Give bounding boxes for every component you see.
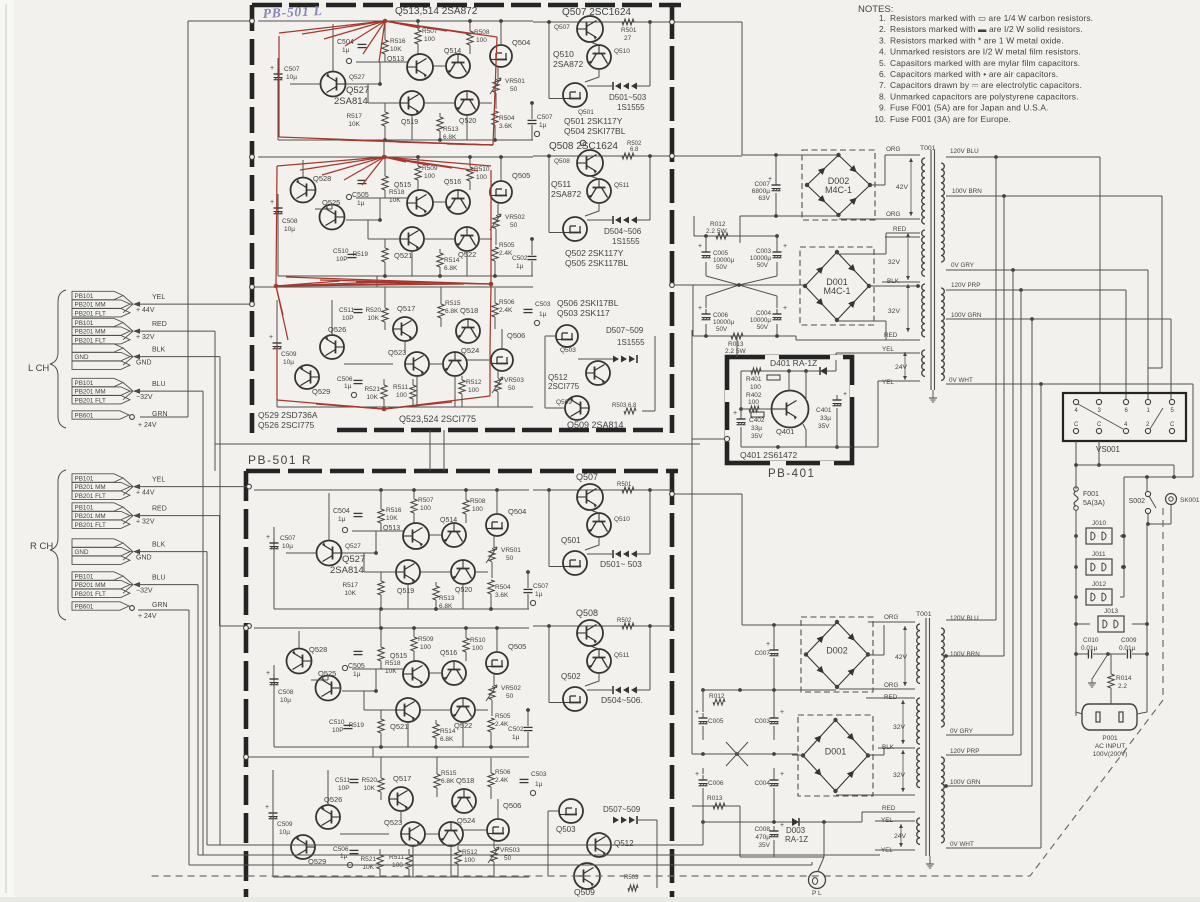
svg-text:C507: C507 bbox=[537, 114, 553, 121]
svg-text:R514: R514 bbox=[440, 728, 456, 735]
svg-text:100: 100 bbox=[748, 399, 759, 406]
svg-text:YEL: YEL bbox=[881, 817, 893, 824]
svg-text:ORG: ORG bbox=[886, 146, 900, 153]
svg-text:120V BLU: 120V BLU bbox=[950, 615, 979, 622]
svg-text:C010: C010 bbox=[1083, 637, 1099, 644]
svg-text:Fuse F001 (5A) are for Japan a: Fuse F001 (5A) are for Japan and U.S.A. bbox=[890, 103, 1049, 113]
svg-text:1µ: 1µ bbox=[535, 781, 543, 788]
svg-text:10000µ: 10000µ bbox=[713, 319, 735, 326]
svg-text:AC INPUT: AC INPUT bbox=[1095, 743, 1125, 750]
svg-text:+ 32V: + 32V bbox=[136, 334, 155, 341]
svg-text:R508: R508 bbox=[470, 498, 486, 505]
svg-text:R511: R511 bbox=[393, 384, 408, 391]
svg-text:6.8: 6.8 bbox=[630, 147, 639, 153]
svg-text:C401: C401 bbox=[816, 407, 832, 414]
svg-text:C006: C006 bbox=[713, 312, 729, 319]
svg-text:2SA872: 2SA872 bbox=[551, 189, 582, 199]
svg-text:M4C-1: M4C-1 bbox=[825, 185, 852, 195]
svg-text:D504~506: D504~506 bbox=[604, 227, 642, 236]
svg-text:10K: 10K bbox=[390, 46, 402, 53]
svg-text:C502: C502 bbox=[508, 726, 524, 733]
svg-text:1µ: 1µ bbox=[535, 591, 543, 598]
svg-text:Q525: Q525 bbox=[322, 198, 340, 207]
svg-text:Q527: Q527 bbox=[342, 554, 365, 565]
svg-text:VR503: VR503 bbox=[504, 377, 524, 384]
svg-text:10K: 10K bbox=[385, 668, 397, 675]
svg-text:C507: C507 bbox=[533, 583, 549, 590]
svg-text:Q514: Q514 bbox=[440, 517, 457, 524]
svg-text:RED: RED bbox=[884, 694, 898, 701]
svg-text:R513: R513 bbox=[443, 126, 459, 133]
svg-text:24V: 24V bbox=[895, 364, 908, 371]
svg-text:1S1555: 1S1555 bbox=[617, 103, 645, 112]
svg-text:Q515: Q515 bbox=[394, 182, 411, 189]
svg-text:Q511: Q511 bbox=[551, 179, 571, 189]
svg-text:7.: 7. bbox=[879, 80, 886, 90]
svg-text:GND: GND bbox=[75, 549, 89, 556]
svg-text:Q514: Q514 bbox=[444, 48, 461, 55]
svg-text:R402: R402 bbox=[746, 392, 762, 399]
svg-text:2.2 5W: 2.2 5W bbox=[725, 348, 746, 355]
svg-text:100: 100 bbox=[476, 37, 487, 44]
svg-text:100: 100 bbox=[420, 505, 431, 512]
svg-text:Q513: Q513 bbox=[387, 56, 404, 63]
svg-text:D507~509: D507~509 bbox=[603, 805, 641, 814]
svg-text:R012: R012 bbox=[710, 221, 726, 228]
svg-text:100: 100 bbox=[396, 392, 407, 399]
svg-text:10K: 10K bbox=[348, 121, 360, 128]
svg-text:50V: 50V bbox=[757, 262, 769, 269]
svg-text:1µ: 1µ bbox=[340, 853, 348, 860]
svg-text:Fuse F001 (3A) are for Europe.: Fuse F001 (3A) are for Europe. bbox=[890, 114, 1011, 124]
svg-text:6.8K: 6.8K bbox=[441, 778, 455, 785]
svg-text:VR502: VR502 bbox=[505, 214, 525, 221]
svg-text:PB201 MM: PB201 MM bbox=[75, 484, 106, 491]
svg-text:2.2: 2.2 bbox=[1118, 683, 1127, 690]
svg-text:+: + bbox=[783, 243, 787, 250]
svg-text:3.6K: 3.6K bbox=[499, 123, 513, 130]
svg-text:1S1555: 1S1555 bbox=[612, 237, 640, 246]
svg-text:Capacitors drawn by ⎓ are elec: Capacitors drawn by ⎓ are electrolytic c… bbox=[890, 80, 1082, 90]
svg-text:C503: C503 bbox=[535, 301, 551, 308]
svg-text:RED: RED bbox=[884, 332, 898, 339]
svg-text:50: 50 bbox=[510, 86, 518, 93]
svg-text:63V: 63V bbox=[758, 195, 770, 202]
svg-text:+: + bbox=[269, 334, 273, 341]
svg-text:+: + bbox=[695, 771, 699, 778]
svg-text:R504: R504 bbox=[499, 115, 515, 122]
svg-text:VR502: VR502 bbox=[501, 685, 521, 692]
svg-text:10P: 10P bbox=[336, 256, 348, 263]
svg-text:YEL: YEL bbox=[882, 346, 894, 353]
svg-text:Q528: Q528 bbox=[309, 645, 327, 654]
svg-text:R517: R517 bbox=[346, 113, 362, 120]
svg-text:6800µ: 6800µ bbox=[752, 188, 770, 195]
svg-text:10P: 10P bbox=[342, 315, 354, 322]
svg-text:D507~509: D507~509 bbox=[606, 326, 644, 335]
svg-text:50V: 50V bbox=[757, 324, 769, 331]
svg-text:8.: 8. bbox=[879, 91, 886, 101]
svg-text:C005: C005 bbox=[708, 718, 724, 725]
svg-text:Capacitors marked with • are a: Capacitors marked with • are air capacit… bbox=[890, 69, 1058, 79]
svg-text:10µ: 10µ bbox=[283, 359, 294, 366]
svg-text:Q506: Q506 bbox=[503, 801, 521, 810]
svg-text:10K: 10K bbox=[386, 515, 398, 522]
svg-text:Q507: Q507 bbox=[576, 472, 598, 482]
svg-text:PB201 FLT: PB201 FLT bbox=[75, 310, 107, 317]
svg-text:5.: 5. bbox=[879, 58, 886, 68]
svg-text:Q501 2SK117Y: Q501 2SK117Y bbox=[564, 116, 623, 126]
svg-text:D501~ 503: D501~ 503 bbox=[600, 559, 642, 569]
svg-text:NOTES:: NOTES: bbox=[858, 4, 893, 15]
svg-text:0V WHT: 0V WHT bbox=[949, 377, 973, 384]
svg-text:35V: 35V bbox=[818, 423, 830, 430]
svg-text:C009: C009 bbox=[1121, 637, 1137, 644]
svg-text:+: + bbox=[766, 641, 770, 648]
svg-text:100: 100 bbox=[476, 174, 487, 181]
svg-text:10.: 10. bbox=[874, 114, 886, 124]
svg-text:D401 RA-1Z: D401 RA-1Z bbox=[770, 358, 817, 368]
svg-text:PB201 FLT: PB201 FLT bbox=[75, 591, 107, 598]
svg-text:C503: C503 bbox=[531, 771, 547, 778]
svg-text:R013: R013 bbox=[707, 795, 723, 802]
svg-text:470µ: 470µ bbox=[755, 834, 770, 841]
svg-text:32V: 32V bbox=[893, 724, 906, 731]
svg-text:PB101: PB101 bbox=[75, 293, 94, 300]
svg-text:120V BLU: 120V BLU bbox=[950, 148, 979, 155]
svg-text:50: 50 bbox=[508, 385, 516, 392]
svg-text:Q526 2SCI775: Q526 2SCI775 bbox=[258, 420, 315, 430]
svg-text:100V BRN: 100V BRN bbox=[950, 651, 980, 658]
svg-text:C: C bbox=[1097, 422, 1102, 428]
svg-text:0V GRY: 0V GRY bbox=[951, 262, 975, 269]
svg-text:Q523,524 2SCI775: Q523,524 2SCI775 bbox=[399, 414, 476, 424]
svg-text:R505: R505 bbox=[495, 713, 511, 720]
svg-text:J012: J012 bbox=[1092, 581, 1106, 588]
svg-text:+: + bbox=[843, 391, 847, 398]
svg-text:R518: R518 bbox=[385, 660, 401, 667]
svg-text:RA-1Z: RA-1Z bbox=[785, 835, 808, 844]
svg-text:9.: 9. bbox=[879, 103, 886, 113]
svg-text:RED: RED bbox=[893, 226, 907, 233]
svg-text:Q512: Q512 bbox=[548, 373, 568, 382]
svg-text:Q522: Q522 bbox=[454, 721, 472, 730]
svg-text:Q504: Q504 bbox=[508, 507, 526, 516]
svg-text:C510: C510 bbox=[329, 719, 345, 726]
svg-text:Q503 2SK117: Q503 2SK117 bbox=[557, 308, 610, 318]
svg-text:R513: R513 bbox=[439, 595, 455, 602]
svg-text:PB101: PB101 bbox=[75, 380, 94, 387]
svg-text:100: 100 bbox=[420, 644, 431, 651]
svg-text:R520: R520 bbox=[365, 307, 381, 314]
svg-text:R521: R521 bbox=[360, 856, 376, 863]
svg-text:1.: 1. bbox=[879, 13, 886, 23]
svg-text:100: 100 bbox=[472, 506, 483, 513]
svg-text:Q527: Q527 bbox=[345, 543, 361, 550]
svg-text:2.4K: 2.4K bbox=[499, 307, 513, 314]
svg-text:+: + bbox=[265, 804, 269, 811]
svg-text:1µ: 1µ bbox=[342, 47, 350, 54]
svg-text:42V: 42V bbox=[895, 654, 908, 661]
svg-text:R506: R506 bbox=[495, 769, 511, 776]
svg-text:10µ: 10µ bbox=[280, 697, 291, 704]
svg-text:P L: P L bbox=[812, 890, 822, 897]
svg-text:Q529 2SD736A: Q529 2SD736A bbox=[258, 410, 318, 420]
svg-text:Unmarked capacitors are polyst: Unmarked capacitors are polystyrene capa… bbox=[890, 91, 1079, 101]
svg-text:R510: R510 bbox=[470, 637, 486, 644]
svg-text:27: 27 bbox=[624, 35, 632, 42]
svg-text:Q515: Q515 bbox=[390, 653, 407, 660]
svg-text:120V PRP: 120V PRP bbox=[951, 282, 980, 289]
svg-text:Q527: Q527 bbox=[346, 85, 369, 96]
svg-text:C507: C507 bbox=[280, 535, 296, 542]
svg-text:Q524: Q524 bbox=[461, 346, 479, 355]
svg-text:Q502: Q502 bbox=[561, 672, 581, 681]
svg-text:T001: T001 bbox=[916, 611, 932, 618]
svg-text:Q507 2SC1624: Q507 2SC1624 bbox=[562, 7, 631, 18]
svg-text:Q519: Q519 bbox=[397, 588, 414, 595]
svg-text:R014: R014 bbox=[1116, 675, 1132, 682]
svg-text:100V GRN: 100V GRN bbox=[951, 312, 982, 319]
svg-text:24V: 24V bbox=[894, 833, 907, 840]
svg-text:R518: R518 bbox=[389, 189, 405, 196]
svg-text:Q503: Q503 bbox=[556, 825, 576, 834]
svg-text:+ 24V: + 24V bbox=[138, 422, 157, 429]
svg-text:PB201 MM: PB201 MM bbox=[75, 582, 106, 589]
svg-text:6.8K: 6.8K bbox=[439, 603, 453, 610]
svg-text:C402: C402 bbox=[749, 417, 765, 424]
svg-text:Q521: Q521 bbox=[390, 722, 408, 731]
svg-text:6.8K: 6.8K bbox=[445, 308, 459, 315]
svg-text:GND: GND bbox=[136, 555, 152, 562]
svg-text:PB-501 R: PB-501 R bbox=[248, 453, 312, 467]
svg-text:100: 100 bbox=[468, 387, 479, 394]
svg-text:+: + bbox=[270, 65, 274, 72]
svg-text:C505: C505 bbox=[348, 663, 365, 670]
svg-text:SK001: SK001 bbox=[1180, 497, 1200, 504]
svg-text:Q525: Q525 bbox=[318, 669, 336, 678]
svg-text:32V: 32V bbox=[893, 772, 906, 779]
svg-text:+ 44V: + 44V bbox=[136, 307, 155, 314]
svg-text:50: 50 bbox=[506, 693, 514, 700]
svg-text:J011: J011 bbox=[1092, 551, 1106, 558]
svg-text:3.: 3. bbox=[879, 35, 886, 45]
svg-text:1µ: 1µ bbox=[539, 122, 547, 129]
svg-text:33µ: 33µ bbox=[820, 415, 831, 422]
svg-text:ORG: ORG bbox=[884, 614, 898, 621]
svg-text:PB201 FLT: PB201 FLT bbox=[75, 397, 107, 404]
svg-text:2SA814: 2SA814 bbox=[330, 565, 364, 576]
svg-text:Q520: Q520 bbox=[455, 587, 472, 594]
svg-text:Q507: Q507 bbox=[554, 24, 570, 31]
svg-text:C005: C005 bbox=[713, 250, 729, 257]
svg-text:D001: D001 bbox=[825, 747, 847, 757]
svg-text:1µ: 1µ bbox=[338, 516, 346, 523]
svg-text:R512: R512 bbox=[466, 379, 482, 386]
svg-text:10µ: 10µ bbox=[282, 543, 293, 550]
svg-text:S002: S002 bbox=[1129, 498, 1145, 505]
svg-text:+ 32V: + 32V bbox=[136, 519, 155, 526]
svg-text:2.: 2. bbox=[879, 24, 886, 34]
svg-text:L CH: L CH bbox=[28, 363, 49, 374]
svg-text:PB201 FLT: PB201 FLT bbox=[75, 522, 107, 529]
svg-text:C: C bbox=[1170, 422, 1175, 428]
svg-text:10µ: 10µ bbox=[279, 829, 290, 836]
svg-text:Q526: Q526 bbox=[324, 795, 342, 804]
svg-text:C509: C509 bbox=[277, 821, 293, 828]
svg-text:PB601: PB601 bbox=[75, 604, 94, 611]
svg-text:2SA872: 2SA872 bbox=[553, 59, 584, 69]
svg-text:C508: C508 bbox=[282, 218, 298, 225]
svg-text:2.2 5W: 2.2 5W bbox=[706, 228, 727, 235]
svg-text:C506: C506 bbox=[337, 376, 353, 383]
svg-text:35V: 35V bbox=[751, 433, 763, 440]
svg-text:PB601: PB601 bbox=[75, 413, 94, 420]
svg-text:Q510: Q510 bbox=[614, 516, 630, 523]
svg-text:R509: R509 bbox=[422, 165, 438, 172]
svg-text:BLU: BLU bbox=[152, 381, 166, 388]
svg-text:Q511: Q511 bbox=[614, 652, 630, 659]
svg-text:R510: R510 bbox=[474, 166, 490, 173]
svg-text:6.8K: 6.8K bbox=[440, 736, 454, 743]
svg-text:Q509 2SA814: Q509 2SA814 bbox=[567, 420, 624, 430]
svg-text:RED: RED bbox=[152, 506, 167, 513]
svg-text:+: + bbox=[783, 305, 787, 312]
svg-text:YEL: YEL bbox=[152, 294, 165, 301]
svg-text:Q516: Q516 bbox=[444, 179, 461, 186]
svg-text:Q508: Q508 bbox=[576, 608, 598, 618]
svg-text:C504: C504 bbox=[333, 508, 350, 515]
svg-text:RED: RED bbox=[152, 321, 167, 328]
svg-text:YEL: YEL bbox=[881, 847, 893, 854]
svg-text:Q513,514 2SA872: Q513,514 2SA872 bbox=[395, 6, 478, 17]
svg-text:PB201 FLT: PB201 FLT bbox=[75, 337, 107, 344]
svg-text:+: + bbox=[695, 709, 699, 716]
svg-text:Q505 2SK117BL: Q505 2SK117BL bbox=[565, 258, 628, 268]
svg-text:R502: R502 bbox=[617, 618, 632, 624]
svg-text:50: 50 bbox=[504, 855, 512, 862]
svg-text:33µ: 33µ bbox=[751, 425, 762, 432]
svg-text:10µ: 10µ bbox=[284, 226, 295, 233]
svg-text:Resistors marked with ▬ are I/: Resistors marked with ▬ are I/2 W solid … bbox=[890, 24, 1083, 34]
svg-text:R501: R501 bbox=[617, 482, 632, 488]
svg-text:50V: 50V bbox=[716, 326, 728, 333]
svg-text:C003: C003 bbox=[756, 248, 772, 255]
svg-text:32V: 32V bbox=[888, 308, 901, 315]
svg-text:Q401 2S61472: Q401 2S61472 bbox=[740, 450, 797, 460]
svg-text:R521: R521 bbox=[364, 386, 380, 393]
svg-text:−32V: −32V bbox=[136, 394, 153, 401]
svg-text:PB201 MM: PB201 MM bbox=[75, 513, 106, 520]
svg-text:Q504: Q504 bbox=[512, 38, 530, 47]
svg-text:100: 100 bbox=[750, 384, 761, 391]
svg-text:−32V: −32V bbox=[136, 588, 153, 595]
svg-text:Q516: Q516 bbox=[440, 650, 457, 657]
svg-text:1µ: 1µ bbox=[353, 671, 361, 678]
svg-text:1µ: 1µ bbox=[344, 383, 352, 390]
svg-text:Q505: Q505 bbox=[508, 642, 526, 651]
svg-text:R501: R501 bbox=[621, 27, 637, 34]
svg-text:C007: C007 bbox=[754, 650, 770, 657]
svg-text:C007: C007 bbox=[754, 181, 770, 188]
svg-text:PB101: PB101 bbox=[75, 574, 94, 581]
svg-text:C004: C004 bbox=[756, 310, 772, 317]
svg-text:R516: R516 bbox=[390, 38, 406, 45]
svg-text:10K: 10K bbox=[389, 197, 401, 204]
svg-text:C: C bbox=[1074, 422, 1079, 428]
svg-text:Q504 2SKI77BL: Q504 2SKI77BL bbox=[564, 126, 626, 136]
svg-text:BLU: BLU bbox=[152, 575, 166, 582]
svg-text:PB201 FLT: PB201 FLT bbox=[75, 493, 107, 500]
svg-text:RED: RED bbox=[882, 805, 896, 812]
svg-text:2.4K: 2.4K bbox=[499, 250, 513, 257]
svg-text:10K: 10K bbox=[366, 394, 378, 401]
svg-text:C505: C505 bbox=[352, 192, 369, 199]
svg-text:2.4K: 2.4K bbox=[495, 721, 509, 728]
svg-text:4.: 4. bbox=[879, 47, 886, 57]
svg-text:0V GRY: 0V GRY bbox=[950, 728, 974, 735]
svg-text:42V: 42V bbox=[896, 184, 909, 191]
svg-text:0V WHT: 0V WHT bbox=[950, 841, 974, 848]
svg-text:C511: C511 bbox=[339, 307, 354, 314]
svg-text:5A(3A): 5A(3A) bbox=[1083, 500, 1105, 507]
svg-text:1µ: 1µ bbox=[516, 263, 524, 270]
svg-text:Q508 2SC1624: Q508 2SC1624 bbox=[549, 141, 618, 152]
svg-text:M4C-1: M4C-1 bbox=[823, 286, 850, 296]
svg-text:R515: R515 bbox=[445, 300, 461, 307]
svg-text:50V: 50V bbox=[716, 264, 728, 271]
svg-text:R013: R013 bbox=[728, 341, 744, 348]
svg-text:+: + bbox=[780, 709, 784, 716]
svg-text:100V(200V): 100V(200V) bbox=[1093, 751, 1128, 758]
svg-text:10P: 10P bbox=[338, 785, 350, 792]
svg-text:R509: R509 bbox=[418, 636, 434, 643]
svg-text:R CH: R CH bbox=[30, 541, 53, 552]
svg-text:C004: C004 bbox=[754, 780, 770, 787]
svg-text:32V: 32V bbox=[888, 259, 901, 266]
svg-text:D003: D003 bbox=[786, 826, 806, 835]
svg-text:R515: R515 bbox=[441, 770, 457, 777]
svg-text:10000µ: 10000µ bbox=[750, 317, 772, 324]
svg-text:D504~506.: D504~506. bbox=[601, 695, 643, 705]
svg-text:Q519: Q519 bbox=[401, 119, 418, 126]
svg-text:YEL: YEL bbox=[882, 379, 894, 386]
svg-text:Q523: Q523 bbox=[384, 818, 402, 827]
svg-text:+: + bbox=[266, 670, 270, 677]
svg-text:Unmarked resistors are I/2 W m: Unmarked resistors are I/2 W metal film … bbox=[890, 47, 1081, 57]
svg-text:C006: C006 bbox=[708, 780, 724, 787]
svg-text:100: 100 bbox=[464, 857, 475, 864]
svg-text:Q509: Q509 bbox=[574, 887, 595, 897]
svg-text:GND: GND bbox=[75, 354, 89, 361]
svg-text:R507: R507 bbox=[418, 497, 434, 504]
svg-text:Q523: Q523 bbox=[388, 348, 406, 357]
svg-text:C509: C509 bbox=[281, 351, 297, 358]
svg-text:0.01µ: 0.01µ bbox=[1081, 645, 1098, 652]
svg-text:Q512: Q512 bbox=[614, 839, 634, 848]
svg-text:Q524: Q524 bbox=[457, 816, 475, 825]
svg-text:C008: C008 bbox=[754, 826, 770, 833]
svg-text:1µ: 1µ bbox=[539, 311, 547, 318]
svg-text:10K: 10K bbox=[363, 785, 375, 792]
svg-text:100V GRN: 100V GRN bbox=[950, 779, 981, 786]
svg-text:VR501: VR501 bbox=[501, 547, 521, 554]
svg-text:R514: R514 bbox=[444, 257, 460, 264]
svg-text:Q522: Q522 bbox=[458, 250, 476, 259]
svg-text:1µ: 1µ bbox=[512, 734, 520, 741]
svg-text:50: 50 bbox=[510, 222, 518, 229]
svg-text:C506: C506 bbox=[333, 846, 349, 853]
